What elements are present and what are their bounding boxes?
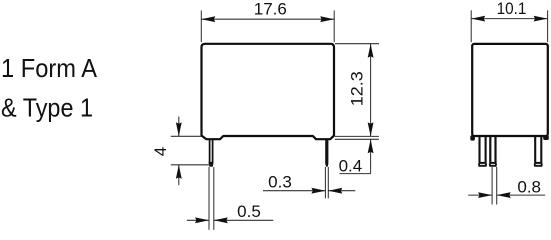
dimension 0.8 (side pin width): [468, 167, 545, 205]
svg-text:& Type 1: & Type 1: [1, 93, 93, 123]
svg-text:10.1: 10.1: [497, 0, 527, 18]
svg-text:4: 4: [151, 147, 170, 156]
svg-text:1 Form A: 1 Form A: [1, 53, 98, 83]
dimension 0.3 (right pin width): [263, 167, 355, 198]
svg-text:0.5: 0.5: [237, 202, 261, 221]
svg-text:17.6: 17.6: [254, 0, 287, 18]
dimension 10.1 (side width): [471, 10, 547, 42]
right foot (side view): [543, 135, 549, 140]
left foot (side view): [470, 135, 475, 140]
right pin (front view, 0.3 wide): [325, 139, 328, 166]
svg-text:12.3: 12.3: [348, 71, 367, 106]
left pin (front view, 0.5 wide): [209, 139, 214, 167]
svg-text:0.3: 0.3: [268, 172, 292, 191]
dimension 17.6 (front width): [201, 11, 334, 43]
dimension 12.3 (front height): [335, 44, 379, 140]
side pin A: [479, 137, 487, 166]
dimension 0.5 (left pin width): [187, 167, 273, 230]
relay body outline (side view): [472, 44, 548, 136]
relay body outline (front view): [202, 44, 335, 139]
dimension 4 (pin length): [171, 117, 211, 186]
dimension 0.4 (standoff): [340, 139, 371, 173]
svg-text:0.8: 0.8: [517, 177, 541, 196]
svg-text:0.4: 0.4: [339, 157, 363, 176]
side pin C: [534, 137, 542, 166]
side pin B: [489, 137, 496, 166]
